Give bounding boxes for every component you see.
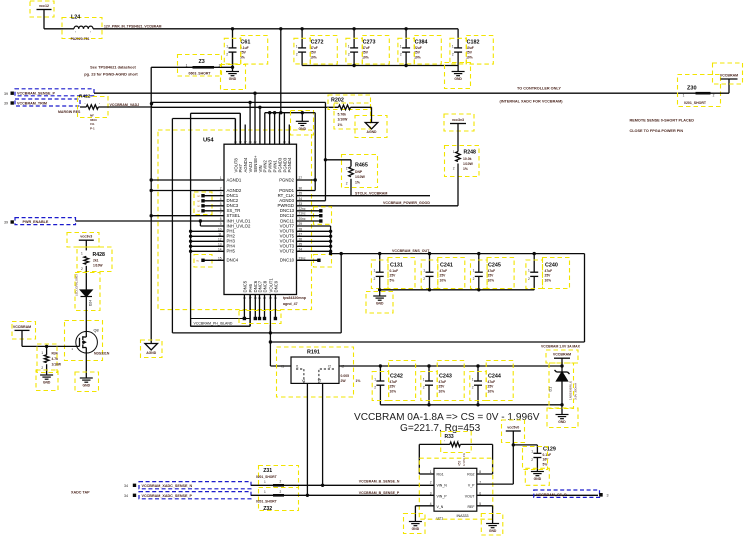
svg-text:": " xyxy=(75,31,76,35)
svg-text:R422: R422 xyxy=(79,94,91,100)
svg-text:10%: 10% xyxy=(488,389,495,393)
wire VIN line to R202 xyxy=(152,106,339,108)
svg-text:9: 9 xyxy=(220,222,222,226)
note see datasheet xyxy=(84,65,138,77)
capacitor C245 xyxy=(473,254,501,290)
svg-text:1: 1 xyxy=(472,377,474,381)
wire 12V drop to PVIN xyxy=(279,27,282,113)
ground under Q8 xyxy=(75,372,99,392)
svg-text:C242: C242 xyxy=(390,374,403,380)
svg-text:12V_PWR_IN_TPS84621_VCCBRAM: 12V_PWR_IN_TPS84621_VCCBRAM xyxy=(104,24,162,28)
wire cap bank bottom rail xyxy=(302,65,458,67)
power symbol VCCBRAM top right xyxy=(713,63,743,84)
svg-text:REF: REF xyxy=(468,505,475,509)
svg-text:Z32: Z32 xyxy=(263,506,272,512)
resistor R248 xyxy=(445,146,480,177)
svg-text:10.0k: 10.0k xyxy=(463,157,472,161)
yellow box U54 outline xyxy=(158,130,312,310)
wire R248 to power good line xyxy=(457,164,459,206)
svg-text:PWR_ENABLE: PWR_ENABLE xyxy=(23,220,49,224)
capacitor C242 xyxy=(374,366,403,405)
inductor L24 xyxy=(62,15,104,42)
svg-text:DNC8: DNC8 xyxy=(262,280,267,292)
svg-text:2: 2 xyxy=(713,93,715,97)
svg-text:C241: C241 xyxy=(440,263,453,269)
svg-text:1: 1 xyxy=(374,269,376,273)
svg-text:0603_SHORT: 0603_SHORT xyxy=(189,71,212,75)
net VCCBRAM_XADC_SENSE_P pin 34 xyxy=(124,492,251,499)
svg-text:2: 2 xyxy=(452,53,454,57)
wire PVIN rail line xyxy=(265,111,303,114)
svg-text:47uF: 47uF xyxy=(310,46,318,50)
svg-text:V_N: V_N xyxy=(437,505,444,509)
svg-text:GND: GND xyxy=(534,477,542,481)
no-connect stub DNC4 pin 15 xyxy=(194,255,224,268)
svg-text:1/10W: 1/10W xyxy=(463,162,474,166)
svg-text:1%: 1% xyxy=(338,123,343,127)
svg-text:1: 1 xyxy=(264,490,266,494)
resistor R33 feedback xyxy=(419,432,492,467)
svg-text:AGND: AGND xyxy=(146,351,157,355)
jumper Z3 0603_SHORT xyxy=(178,55,222,77)
wire LED to Q8 drain xyxy=(85,297,87,333)
svg-text:VCCBRAM_POWER_GOOD: VCCBRAM_POWER_GOOD xyxy=(383,201,430,205)
svg-text:GND: GND xyxy=(558,420,566,424)
capacitor C182 xyxy=(452,29,480,66)
wire RT_CLK STCLK line xyxy=(297,191,431,195)
svg-text:1N5339BRLG: 1N5339BRLG xyxy=(569,380,573,400)
svg-text:2: 2 xyxy=(453,167,455,171)
svg-text:1: 1 xyxy=(81,251,83,255)
svg-text:25V: 25V xyxy=(545,274,552,278)
svg-text:VOUT2: VOUT2 xyxy=(280,249,295,254)
svg-text:VOUT: VOUT xyxy=(465,494,476,498)
svg-text:t1: t1 xyxy=(296,364,299,368)
svg-text:VCCBRAM_TRIM: VCCBRAM_TRIM xyxy=(17,102,47,106)
svg-text:8: 8 xyxy=(479,470,481,474)
svg-text:G=221.7, Rg=453: G=221.7, Rg=453 xyxy=(400,423,481,434)
svg-text:See TPS84621 datasheet: See TPS84621 datasheet xyxy=(90,65,136,70)
svg-text:3.9V 300mA: 3.9V 300mA xyxy=(574,382,578,400)
svg-text:V_P: V_P xyxy=(468,484,475,488)
wire R33 right to RG2 xyxy=(477,444,493,474)
wire VCCBRAM to gate xyxy=(22,330,80,348)
capacitor C131 xyxy=(374,254,403,290)
svg-text:R428: R428 xyxy=(93,252,106,258)
svg-text:47uF: 47uF xyxy=(362,46,370,50)
capacitor C241 xyxy=(423,254,453,290)
power symbol vcc5v0 xyxy=(502,420,525,443)
svg-text:vcc5v0: vcc5v0 xyxy=(507,425,519,429)
jumper Z31 0201_SHORT xyxy=(256,466,299,488)
power symbol VCCBRAM at D1 xyxy=(546,350,578,363)
svg-text:C273: C273 xyxy=(363,40,376,46)
svg-text:DNC4: DNC4 xyxy=(227,258,239,263)
svg-text:2: 2 xyxy=(280,490,282,494)
wire Z3 right to C61 bottom xyxy=(214,66,233,68)
svg-text:1: 1 xyxy=(452,44,454,48)
svg-text:STSEL: STSEL xyxy=(227,213,241,218)
ground under D1 xyxy=(547,408,578,428)
capacitor C273 xyxy=(348,29,376,66)
wire Q8 source to ground xyxy=(85,353,87,378)
svg-text:5%: 5% xyxy=(543,462,548,466)
svg-text:DNC5: DNC5 xyxy=(242,280,247,292)
svg-text:1: 1 xyxy=(400,44,402,48)
svg-text:vcc3v3: vcc3v3 xyxy=(452,118,464,122)
svg-text:25V: 25V xyxy=(414,51,421,55)
svg-text:INH_UVLO2: INH_UVLO2 xyxy=(227,223,251,228)
svg-text:pg. 23 for PGND-AGND short: pg. 23 for PGND-AGND short xyxy=(84,72,138,77)
svg-text:4.7k: 4.7k xyxy=(52,357,59,361)
svg-text:R191: R191 xyxy=(307,350,320,356)
svg-text:25V: 25V xyxy=(390,274,397,278)
wire vcc3v3 to R428 xyxy=(85,240,87,250)
svg-text:PGND4: PGND4 xyxy=(287,157,292,172)
svg-text:1: 1 xyxy=(531,450,533,454)
wire AGND net vertical xyxy=(150,67,152,343)
svg-text:VIN_P: VIN_P xyxy=(437,494,448,498)
svg-text:GND: GND xyxy=(83,384,91,388)
svg-text:3: 3 xyxy=(430,491,432,495)
svg-text:453: 453 xyxy=(458,460,462,466)
ground at PGND near U54 xyxy=(291,111,314,136)
resistor R422 margin xyxy=(58,94,152,131)
svg-text:VCCBRAM_SENSE_P: VCCBRAM_SENSE_P xyxy=(17,91,55,95)
svg-text:Z3: Z3 xyxy=(199,59,205,65)
svg-text:10%: 10% xyxy=(545,278,552,282)
wire STSEL to AGND net xyxy=(150,214,225,217)
svg-text:R33: R33 xyxy=(445,434,454,440)
svg-text:STCLK_VCCBRAM: STCLK_VCCBRAM xyxy=(355,191,387,195)
wire R191 kelvin v1 xyxy=(306,383,308,495)
svg-text:8: 8 xyxy=(220,217,222,221)
svg-text:1%: 1% xyxy=(356,379,361,383)
svg-text:REMOTE SENSE 0-SHORT PLACED: REMOTE SENSE 0-SHORT PLACED xyxy=(630,119,695,123)
svg-text:1: 1 xyxy=(453,150,455,154)
svg-text:AGND: AGND xyxy=(367,130,378,134)
svg-text:10%: 10% xyxy=(310,55,317,59)
svg-text:2: 2 xyxy=(400,53,402,57)
U54 bottom pin stubs xyxy=(242,278,278,334)
capacitor C129 xyxy=(531,445,556,472)
net VCCBRAM_CS_P pin 3 xyxy=(534,490,609,497)
svg-text:39: 39 xyxy=(4,92,8,96)
svg-text:1: 1 xyxy=(348,44,350,48)
svg-text:VCCBRAM: VCCBRAM xyxy=(553,353,571,357)
svg-text:10%: 10% xyxy=(414,55,421,59)
wire VCCBRAM_SNS_OUT line xyxy=(329,249,585,342)
svg-text:2: 2 xyxy=(423,277,425,281)
svg-text:VIN_N: VIN_N xyxy=(437,484,448,488)
svg-text:2: 2 xyxy=(473,277,475,281)
capacitor C384 xyxy=(400,29,428,66)
svg-text:2: 2 xyxy=(374,277,376,281)
svg-text:47uF: 47uF xyxy=(439,380,447,384)
yellow boxes top caps xyxy=(224,38,240,64)
svg-text:0.005: 0.005 xyxy=(341,374,350,378)
svg-text:": " xyxy=(458,440,459,444)
wire vcc5v0 node xyxy=(477,431,538,484)
svg-text:Q8: Q8 xyxy=(94,329,99,333)
svg-text:C240: C240 xyxy=(545,263,558,269)
note remote sense xyxy=(630,119,695,134)
note to controller only xyxy=(500,87,564,104)
svg-text:1: 1 xyxy=(41,351,43,355)
wire PGND2 PGND1 tie xyxy=(297,113,317,191)
svg-text:10%: 10% xyxy=(440,278,447,282)
svg-text:vcc12: vcc12 xyxy=(39,4,49,8)
svg-text:U21: U21 xyxy=(437,517,444,521)
svg-text:DNC12: DNC12 xyxy=(280,213,295,218)
wire R191 output to D1 xyxy=(339,365,562,367)
net PWR_ENABLE pin 39 xyxy=(4,218,76,225)
transistor Q8 NDS331N xyxy=(65,321,110,361)
svg-text:5%: 5% xyxy=(390,278,395,282)
svg-text:1/16W: 1/16W xyxy=(52,362,62,366)
svg-text:10%: 10% xyxy=(362,55,369,59)
svg-text:1: 1 xyxy=(423,269,425,273)
svg-text:": " xyxy=(444,440,445,444)
ground under V_N xyxy=(404,514,426,534)
wire REF to ground xyxy=(477,506,493,524)
svg-text:2: 2 xyxy=(423,386,425,390)
capacitor C244 xyxy=(472,366,501,405)
svg-text:2: 2 xyxy=(528,277,530,281)
svg-text:C272: C272 xyxy=(311,40,324,46)
resistor R191 current sense xyxy=(277,347,361,397)
svg-text:GND: GND xyxy=(43,381,51,385)
no-connect stubs DNC1-SS_TR xyxy=(194,192,224,215)
svg-text:": " xyxy=(353,103,354,107)
wire AGND3 up to margin line xyxy=(297,102,326,200)
svg-text:2: 2 xyxy=(81,267,83,271)
svg-text:RG1: RG1 xyxy=(437,472,444,476)
svg-text:t2: t2 xyxy=(328,364,331,368)
svg-text:MARGIN RES: MARGIN RES xyxy=(58,110,81,114)
svg-text:2: 2 xyxy=(346,182,348,186)
svg-text:1: 1 xyxy=(226,44,228,48)
svg-text:1: 1 xyxy=(430,470,432,474)
svg-text:(INTERNAL XADC FOR VCCBRAM): (INTERNAL XADC FOR VCCBRAM) xyxy=(500,100,564,104)
svg-text:25V: 25V xyxy=(440,274,447,278)
svg-text:2: 2 xyxy=(280,480,282,484)
svg-text:1: 1 xyxy=(346,166,348,170)
ground AGND under R202 xyxy=(355,107,387,137)
svg-text:0.1uF: 0.1uF xyxy=(240,46,249,50)
wire xadc sense N line xyxy=(251,480,434,487)
svg-text:1: 1 xyxy=(296,44,298,48)
svg-text:agnd_47: agnd_47 xyxy=(283,302,298,306)
svg-text:47uF: 47uF xyxy=(488,380,496,384)
wire sense line to controller xyxy=(94,92,696,94)
capacitor C240 xyxy=(528,254,558,290)
op-amp U21 INA333 body xyxy=(419,458,493,520)
svg-text:2k1: 2k1 xyxy=(93,259,99,263)
svg-text:CLOSE TO FPGA POWER PIN: CLOSE TO FPGA POWER PIN xyxy=(630,129,684,133)
ground under C61 xyxy=(221,65,246,90)
svg-text:tps84320mnp: tps84320mnp xyxy=(283,296,307,300)
svg-text:GND: GND xyxy=(489,529,497,533)
U54 top pin stubs and labels xyxy=(233,93,292,172)
wire PH pins to PH island xyxy=(189,230,224,253)
yellow box bottom NC cluster xyxy=(239,311,281,324)
resistor R202 xyxy=(328,95,372,129)
svg-text:47uF: 47uF xyxy=(545,269,553,273)
op-amp U54 regulator TPS84320 body xyxy=(203,138,297,295)
zener diode D1 xyxy=(549,358,578,414)
svg-text:PGND2: PGND2 xyxy=(279,177,294,182)
svg-text:47uF: 47uF xyxy=(440,269,448,273)
svg-text:v2: v2 xyxy=(318,379,322,383)
svg-text:2: 2 xyxy=(374,386,376,390)
wire C61 bottom stub xyxy=(232,52,234,71)
svg-text:10%: 10% xyxy=(466,55,473,59)
svg-text:LED_GRN_0603: LED_GRN_0603 xyxy=(75,274,79,296)
label box VCCBRAM_PH_ISLAND xyxy=(191,319,250,327)
svg-text:2: 2 xyxy=(226,53,228,57)
svg-text:2W: 2W xyxy=(341,379,347,383)
svg-text:2: 2 xyxy=(531,458,533,462)
svg-text:GND: GND xyxy=(412,527,420,531)
ground under C129 xyxy=(525,468,549,485)
svg-text:25V: 25V xyxy=(362,51,369,55)
svg-text:": " xyxy=(90,31,91,35)
svg-text:25V: 25V xyxy=(439,385,446,389)
svg-text:1/10W: 1/10W xyxy=(338,118,349,122)
svg-text:D24: D24 xyxy=(89,300,93,306)
wire V_N to ground xyxy=(415,506,434,522)
power symbol vcc12 xyxy=(30,1,54,17)
svg-text:C131: C131 xyxy=(390,263,403,269)
svg-text:": " xyxy=(99,102,100,106)
svg-text:DNC10: DNC10 xyxy=(280,258,295,263)
svg-text:VOUT7: VOUT7 xyxy=(280,223,295,228)
yellow box C129 xyxy=(523,447,548,470)
power symbol VCCBRAM gate pullup xyxy=(12,322,36,340)
svg-text:TO CONTROLLER ONLY: TO CONTROLLER ONLY xyxy=(517,87,561,91)
net VCCBRAM_TRIM pin 39 xyxy=(4,99,80,106)
svg-text:3: 3 xyxy=(607,493,609,497)
svg-text:AGND1: AGND1 xyxy=(227,177,242,182)
svg-text:34: 34 xyxy=(124,494,128,498)
svg-text:1: 1 xyxy=(374,377,376,381)
net VCCBRAM_SENSE_P pin 39 xyxy=(4,89,94,96)
svg-text:1: 1 xyxy=(528,269,530,273)
part number text tps84320 xyxy=(283,296,307,306)
svg-text:5.76k: 5.76k xyxy=(338,112,347,116)
svg-text:VCCBRAM_XADC_SENSE_N: VCCBRAM_XADC_SENSE_N xyxy=(142,484,193,488)
svg-text:0.1uF: 0.1uF xyxy=(390,269,399,273)
no-connect stubs DNC13-DNC11 xyxy=(297,207,332,225)
svg-text:1: 1 xyxy=(264,480,266,484)
svg-text:GND: GND xyxy=(376,302,384,306)
svg-text:1: 1 xyxy=(473,269,475,273)
svg-text:C243: C243 xyxy=(439,374,452,380)
svg-text:2: 2 xyxy=(348,53,350,57)
svg-text:10%: 10% xyxy=(488,278,495,282)
svg-text:10%: 10% xyxy=(390,389,397,393)
wire VOUT1 junction on island xyxy=(269,331,272,334)
svg-text:PH5: PH5 xyxy=(227,249,236,254)
svg-text:VCCBRAM: VCCBRAM xyxy=(720,73,738,77)
wire PH island outline xyxy=(191,113,250,326)
svg-text:C61: C61 xyxy=(241,40,251,46)
resistor R34 gate pulldown xyxy=(37,344,62,375)
svg-text:34: 34 xyxy=(124,484,128,488)
resistor R428 xyxy=(77,247,112,272)
svg-text:XADC TAP: XADC TAP xyxy=(71,491,90,495)
svg-text:1/10W 1%: 1/10W 1% xyxy=(462,453,466,466)
svg-text:GND: GND xyxy=(454,77,462,81)
wire sns caps bottom rail xyxy=(378,288,534,291)
wire vcc12 to L24 xyxy=(43,10,45,29)
jumper Z32 0201_SHORT xyxy=(256,488,299,513)
svg-text:VCCBRAM: VCCBRAM xyxy=(13,325,31,329)
svg-text:0201_SHORT: 0201_SHORT xyxy=(256,475,277,479)
svg-text:Z31: Z31 xyxy=(263,468,272,474)
wire xadc sense P line xyxy=(251,491,434,497)
svg-text:25V: 25V xyxy=(310,51,317,55)
svg-text:10%: 10% xyxy=(439,389,446,393)
svg-text:39: 39 xyxy=(4,102,8,106)
svg-text:47uF: 47uF xyxy=(488,269,496,273)
svg-text:DNP: DNP xyxy=(355,170,363,174)
svg-text:P-1: P-1 xyxy=(90,126,95,130)
svg-text:t1: t1 xyxy=(281,364,284,368)
svg-text:Z30: Z30 xyxy=(687,86,697,92)
wire enable line to INH_UVLO1 xyxy=(76,220,225,222)
svg-text:0.1uF: 0.1uF xyxy=(543,453,552,457)
svg-text:C384: C384 xyxy=(415,40,428,46)
svg-text:39: 39 xyxy=(4,220,8,224)
svg-text:0201_SHORT: 0201_SHORT xyxy=(684,101,707,105)
svg-text:NDS331N: NDS331N xyxy=(94,352,110,356)
svg-text:2: 2 xyxy=(296,53,298,57)
svg-text:VCCBRAM_CS_P: VCCBRAM_CS_P xyxy=(536,493,567,497)
wire C61 top junction xyxy=(231,27,234,30)
svg-text:VCCBRAM_B_SENSE_P: VCCBRAM_B_SENSE_P xyxy=(359,491,400,495)
net VCCBRAM_XADC_SENSE_N pin 34 xyxy=(124,482,251,489)
capacitor C272 xyxy=(296,29,324,66)
svg-text:2: 2 xyxy=(472,386,474,390)
svg-text:C245: C245 xyxy=(488,263,501,269)
svg-text:U54: U54 xyxy=(203,138,214,144)
wire R191 kelvin v2 xyxy=(322,383,324,485)
svg-text:GND: GND xyxy=(229,77,237,81)
svg-text:1%: 1% xyxy=(355,180,360,184)
svg-text:1: 1 xyxy=(683,93,685,97)
wire VOUT to CS_P xyxy=(477,494,598,496)
svg-text:25V: 25V xyxy=(466,51,473,55)
wire Z30 to VCCBRAM xyxy=(711,79,730,93)
svg-text:": " xyxy=(337,103,338,107)
note gain equation xyxy=(354,412,540,434)
svg-text:VCCBRAM_B_SENSE_N: VCCBRAM_B_SENSE_N xyxy=(359,480,400,484)
yellow boxes output caps xyxy=(372,372,388,401)
svg-text:VCCBRAM 0A-1.8A => CS = 0V - 1: VCCBRAM 0A-1.8A => CS = 0V - 1.996V xyxy=(354,412,540,423)
svg-text:VCCBRAM_VADJ: VCCBRAM_VADJ xyxy=(110,103,140,107)
svg-text:25V: 25V xyxy=(488,385,495,389)
ground under R34 xyxy=(36,370,58,391)
wire RT_CLK branch to R465 xyxy=(324,158,351,166)
svg-text:vcc3v3: vcc3v3 xyxy=(80,235,92,239)
wire VOUT1 down to R191 and sense branch xyxy=(269,325,585,366)
svg-text:L24: L24 xyxy=(71,15,80,21)
svg-text:0201_SHORT: 0201_SHORT xyxy=(256,500,277,504)
capacitor C243 xyxy=(423,366,452,405)
svg-text:VCCBRAM_PH_ISLAND: VCCBRAM_PH_ISLAND xyxy=(194,322,233,326)
